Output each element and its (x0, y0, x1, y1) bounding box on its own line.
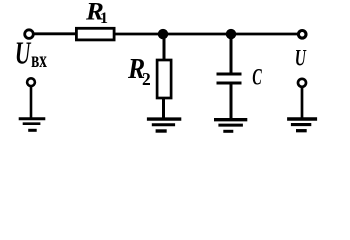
svg-text:вх: вх (31, 48, 47, 73)
label U output (295, 47, 307, 72)
resistor R2 (157, 60, 171, 98)
input terminal circle (25, 30, 34, 39)
wire input to R1 (35, 32, 77, 35)
svg-text:C: C (252, 65, 262, 90)
label C (252, 65, 262, 90)
wire R2 to ground (162, 98, 165, 119)
svg-text:U: U (15, 35, 32, 70)
label R1 (85, 0, 108, 27)
svg-text:2: 2 (142, 69, 151, 89)
ground lower-right (287, 119, 317, 131)
node junction dot left (158, 29, 169, 40)
wire C to ground (230, 83, 233, 119)
lower-right terminal circle (298, 79, 306, 87)
svg-text:U: U (295, 47, 307, 72)
label U_vx (15, 35, 47, 72)
ground lower-left (19, 119, 46, 131)
lower-right terminal stem wire (301, 88, 304, 118)
ground under R2 (147, 119, 181, 131)
capacitor C plates (217, 74, 242, 83)
wire R1 to output (115, 33, 298, 36)
ground under C (214, 120, 247, 132)
lower-left terminal stem wire (30, 87, 33, 118)
lower-left terminal circle (27, 78, 35, 86)
node junction dot right (226, 29, 237, 40)
wire node to capacitor C (230, 34, 233, 74)
output terminal circle (298, 31, 306, 39)
label R2 (127, 53, 151, 89)
resistor R1 (76, 28, 114, 40)
svg-text:1: 1 (100, 10, 108, 27)
wire node to R2 (163, 34, 166, 60)
